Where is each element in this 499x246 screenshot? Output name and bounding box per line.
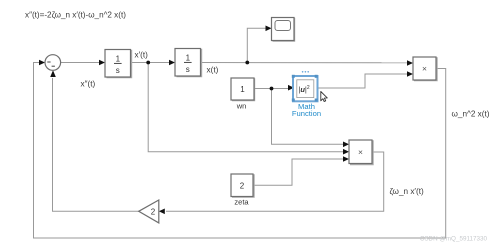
gain block G1 (2): [139, 200, 159, 223]
svg-text:2: 2: [151, 207, 156, 216]
svg-text:×: ×: [358, 147, 363, 157]
wire: gain output left and up to sum bottom input: [53, 78, 139, 211]
wire: feedback wn^2 x(t) from product P1 down right side, along bottom, up left to sum: [34, 63, 446, 239]
svg-text:ζω_n x′(t): ζω_n x′(t): [390, 187, 424, 196]
integrator block I1 (1/s): [105, 50, 132, 78]
svg-text:Function: Function: [292, 109, 321, 118]
arrowhead into gain input: [159, 209, 165, 215]
scope block: [272, 18, 295, 42]
wire: math function output to product P1 lower input: [318, 74, 409, 88]
sum block S1: [45, 55, 61, 71]
node J1 junction between integrators: [146, 61, 150, 65]
product block P2 (x): [349, 140, 373, 165]
arrowhead into product P2 middle input: [343, 149, 349, 155]
wire: product P2 output down and left to gain input: [166, 152, 384, 211]
wire: branch from node J2 up to scope: [247, 28, 266, 62]
svg-text:2: 2: [240, 182, 245, 191]
ellipsis badge above math function: [302, 71, 304, 73]
arrowhead into math function: [288, 85, 294, 91]
arrowhead into product P1 lower input: [407, 71, 413, 77]
constant block wn (1): [231, 78, 255, 101]
svg-text:x″(t)=-2ζω_n x′(t)-ω_n^2 x(t): x″(t)=-2ζω_n x′(t)-ω_n^2 x(t): [25, 11, 126, 20]
constant block zeta (2): [231, 174, 254, 197]
arrowhead into integrator 1: [99, 60, 105, 66]
wire: sum output to integrator 1: [61, 62, 100, 64]
arrowhead into sum bottom input: [50, 70, 56, 77]
arrowhead into product P2 top input: [343, 142, 349, 148]
wire: constant zeta output to product P2 bottom input: [253, 159, 344, 185]
svg-text:wn: wn: [236, 102, 247, 111]
svg-text:×: ×: [422, 64, 427, 74]
arrowhead into product P2 bottom input: [343, 156, 349, 162]
integrator block I2 (1/s): [175, 49, 202, 77]
wire: integrator 2 output x(t) long run to product P1 top input: [201, 62, 408, 64]
wire: branch from node J3 down to product P2 top input: [272, 89, 345, 145]
svg-text:ω_n^2 x(t): ω_n^2 x(t): [452, 110, 490, 119]
svg-text:1: 1: [240, 85, 245, 94]
arrowhead into product P1 top input: [407, 60, 413, 66]
arrowhead into scope: [266, 26, 272, 32]
svg-text:x′(t): x′(t): [135, 51, 149, 60]
arrowhead into integrator 2: [169, 60, 175, 66]
svg-text:zeta: zeta: [234, 198, 249, 207]
math function block U1 selected (|u|^2): [292, 75, 318, 102]
svg-text:x″(t): x″(t): [81, 80, 96, 89]
mouse cursor: [321, 92, 328, 102]
svg-text:s: s: [186, 65, 190, 74]
wire: integrator 1 to integrator 2: [131, 62, 170, 64]
svg-text:1: 1: [186, 54, 191, 63]
svg-text:x(t): x(t): [207, 65, 219, 74]
svg-text:1: 1: [116, 55, 121, 64]
svg-text:CSDN @mQ_59117330: CSDN @mQ_59117330: [420, 236, 488, 243]
node J2 junction after integrator 2: [245, 61, 249, 65]
node J3 junction after wn: [270, 87, 274, 91]
arrowhead into sum left input: [39, 60, 45, 66]
wire: constant wn output to math function: [254, 88, 289, 90]
product block P1 (x): [413, 57, 437, 81]
svg-text:s: s: [116, 66, 120, 75]
wire: branch from node J1 (x'(t)) down to product P2 middle input: [148, 63, 344, 152]
